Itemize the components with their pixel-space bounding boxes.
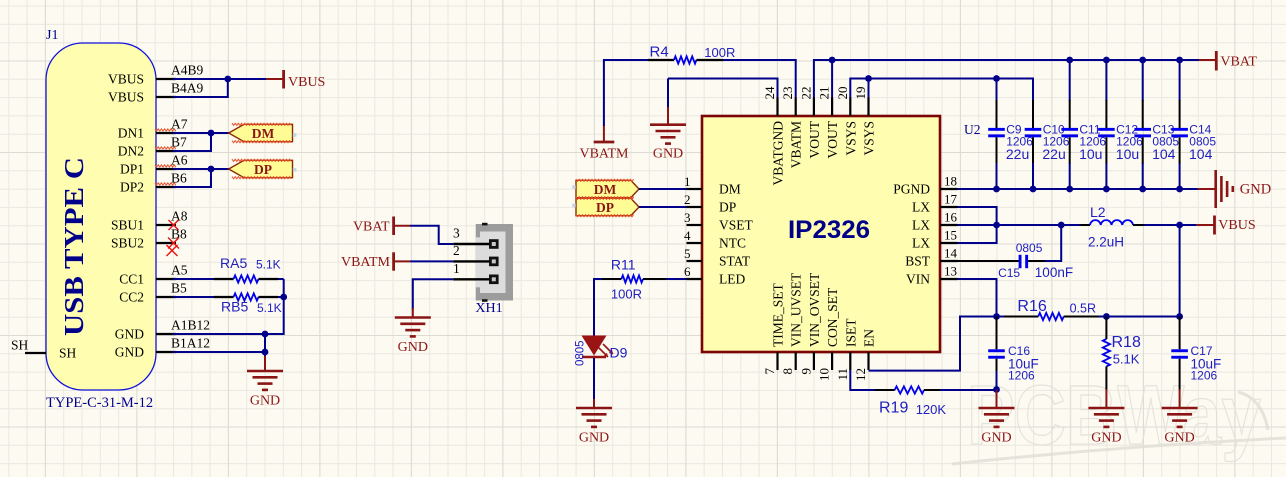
junction pin21 VOUT bbox=[829, 57, 836, 64]
svg-text:B5: B5 bbox=[171, 281, 187, 296]
resistor R19 120K bbox=[875, 386, 946, 417]
U2 pin 16 LX bbox=[912, 210, 958, 233]
resistor RB5 5.1K bbox=[214, 293, 282, 315]
svg-text:VIN_UVSET: VIN_UVSET bbox=[789, 272, 804, 347]
svg-text:3: 3 bbox=[453, 226, 460, 241]
wire GND B1A12 bbox=[173, 351, 265, 353]
svg-text:CON_SET: CON_SET bbox=[825, 287, 840, 347]
svg-text:16: 16 bbox=[944, 210, 958, 225]
U2 pin 24 VBATGND bbox=[762, 86, 786, 186]
wire EN to VIN bbox=[869, 317, 997, 371]
U2 pin 17 LX bbox=[912, 192, 958, 215]
J1 pin A5 CC1 bbox=[119, 263, 188, 287]
svg-text:R16: R16 bbox=[1017, 298, 1046, 315]
port handles (left DM/DP) bbox=[293, 133, 297, 171]
junction LX bbox=[993, 222, 1000, 229]
wire bbox=[996, 79, 998, 102]
svg-text:100nF: 100nF bbox=[1035, 265, 1073, 280]
junction C15/LX bbox=[1058, 222, 1065, 229]
svg-text:CC2: CC2 bbox=[119, 290, 144, 305]
svg-text:VSYS: VSYS bbox=[862, 121, 877, 156]
wire VSYS rail bbox=[850, 79, 1033, 101]
svg-text:0805: 0805 bbox=[1016, 241, 1043, 255]
wire R18 to C17 node bbox=[1106, 316, 1179, 318]
capacitor C9 22u bbox=[988, 79, 1033, 193]
junction DM bbox=[208, 130, 215, 137]
wire L2 to VBUS bbox=[1144, 224, 1196, 226]
wire DN2 to DM bbox=[173, 134, 211, 151]
svg-text:IP2326: IP2326 bbox=[788, 216, 870, 244]
wire C16 to GND node bbox=[996, 371, 998, 390]
J1 pin A1B12 GND bbox=[115, 318, 210, 342]
svg-text:7: 7 bbox=[762, 368, 777, 375]
svg-text:DM: DM bbox=[252, 126, 275, 141]
J1 pin A6 DP1 bbox=[120, 153, 188, 177]
ground symbol C16 bbox=[979, 408, 1015, 427]
power stub VBAT bbox=[394, 225, 410, 227]
svg-text:B1A12: B1A12 bbox=[171, 336, 210, 351]
wire XH1 pin1 to GND bbox=[413, 279, 454, 309]
U2 pin 21 VOUT bbox=[817, 87, 841, 159]
svg-text:B4A9: B4A9 bbox=[171, 81, 204, 96]
wire bbox=[996, 163, 998, 189]
ground symbol C17 bbox=[1162, 408, 1198, 427]
U2 pin 4 NTC bbox=[684, 228, 746, 250]
svg-text:GND: GND bbox=[1164, 431, 1194, 446]
svg-text:2: 2 bbox=[684, 192, 691, 207]
svg-text:DN2: DN2 bbox=[118, 144, 144, 159]
svg-text:19: 19 bbox=[853, 87, 868, 100]
svg-text:10u: 10u bbox=[1079, 146, 1102, 162]
wire pin19 drop bbox=[868, 79, 870, 98]
wire VIN pin13 down bbox=[958, 279, 997, 317]
ground symbol (rail, sideways) bbox=[1216, 170, 1233, 208]
svg-text:22u: 22u bbox=[1006, 146, 1029, 162]
svg-text:2: 2 bbox=[453, 243, 460, 258]
capacitor C12 10u bbox=[1098, 57, 1143, 193]
svg-text:C15: C15 bbox=[998, 266, 1020, 280]
J1 pin A8 SBU1 bbox=[111, 209, 188, 233]
wire DP net bbox=[173, 168, 229, 170]
svg-text:VSET: VSET bbox=[719, 218, 754, 233]
svg-text:20: 20 bbox=[835, 87, 850, 100]
U2 pin 8 VIN_UVSET bbox=[780, 272, 804, 374]
svg-text:10: 10 bbox=[817, 368, 832, 381]
wire CC1 to RA5 bbox=[173, 278, 216, 280]
svg-text:GND: GND bbox=[579, 431, 609, 446]
svg-text:J1: J1 bbox=[46, 28, 58, 43]
junction VIN node bbox=[993, 313, 1000, 320]
junction C13 top bbox=[1139, 57, 1146, 64]
svg-text:DP: DP bbox=[254, 162, 272, 177]
svg-text:A1B12: A1B12 bbox=[171, 318, 210, 333]
wire VIN node up to VBUS bbox=[1179, 226, 1181, 317]
port DM (J1 side) bbox=[229, 123, 293, 143]
junction C11 top bbox=[1066, 57, 1073, 64]
U2 pin 13 VIN bbox=[906, 264, 958, 287]
svg-text:D9: D9 bbox=[610, 345, 628, 361]
capacitor C14 104 bbox=[1171, 57, 1216, 193]
ground stub R18 bbox=[1105, 389, 1107, 408]
compile squiggles on DN/DP pins bbox=[155, 129, 176, 185]
svg-text:USB TYPE C: USB TYPE C bbox=[59, 157, 89, 336]
junction RB5 bbox=[280, 294, 287, 301]
U2 pin 9 VIN_OVSET bbox=[798, 272, 822, 374]
U2 pin 14 BST bbox=[905, 246, 957, 269]
resistor R4 100R bbox=[648, 44, 735, 64]
svg-text:22: 22 bbox=[798, 87, 813, 100]
U2 pin 15 LX bbox=[912, 228, 958, 251]
svg-text:STAT: STAT bbox=[719, 254, 751, 269]
svg-text:VBAT: VBAT bbox=[1220, 55, 1257, 70]
svg-text:VBATGND: VBATGND bbox=[771, 121, 786, 186]
wire pin21 drop bbox=[831, 60, 833, 98]
power stub VBATM bbox=[394, 260, 410, 262]
svg-text:LED: LED bbox=[719, 272, 745, 287]
svg-text:GND: GND bbox=[115, 327, 144, 342]
J1 pin A7 DN1 bbox=[118, 117, 188, 141]
svg-text:A5: A5 bbox=[171, 263, 188, 278]
ground symbol (near R4) bbox=[667, 79, 669, 125]
resistor R11 100R bbox=[601, 257, 666, 302]
XH1 pin 1 bbox=[453, 261, 499, 284]
svg-text:LX: LX bbox=[912, 218, 930, 233]
svg-text:21: 21 bbox=[817, 87, 832, 100]
svg-text:GND: GND bbox=[1091, 431, 1121, 446]
svg-text:PGND: PGND bbox=[893, 182, 930, 197]
svg-text:VBAT: VBAT bbox=[353, 220, 390, 235]
wire RB5 right bbox=[278, 296, 284, 298]
svg-text:BST: BST bbox=[905, 254, 931, 269]
svg-text:11: 11 bbox=[835, 368, 850, 381]
svg-text:DP: DP bbox=[596, 200, 614, 215]
U2 pin 23 VBATM bbox=[780, 87, 804, 169]
svg-text:VIN_OVSET: VIN_OVSET bbox=[807, 272, 822, 347]
ground stub J1 bbox=[264, 356, 266, 371]
svg-text:SH: SH bbox=[59, 346, 77, 361]
svg-text:100R: 100R bbox=[611, 287, 642, 302]
wire C15 to LX bbox=[1045, 225, 1061, 261]
svg-text:23: 23 bbox=[780, 87, 795, 100]
junction C14 top bbox=[1176, 57, 1183, 64]
svg-text:104: 104 bbox=[1189, 146, 1213, 162]
svg-text:RA5: RA5 bbox=[220, 255, 247, 271]
svg-text:VIN: VIN bbox=[906, 272, 930, 287]
wire VOUT rail bbox=[814, 60, 1199, 98]
svg-text:B8: B8 bbox=[171, 227, 187, 242]
svg-text:U2: U2 bbox=[964, 122, 981, 137]
svg-text:2.2uH: 2.2uH bbox=[1088, 234, 1124, 249]
wire bbox=[1069, 163, 1071, 189]
wire VIN to R16 bbox=[997, 316, 1005, 318]
ground symbol J1 bbox=[247, 371, 283, 390]
svg-text:GND: GND bbox=[981, 431, 1011, 446]
ground bars (near R4) bbox=[650, 125, 686, 144]
junction VBUS bbox=[224, 76, 231, 83]
U2 pin 10 CON_SET bbox=[817, 287, 841, 381]
wire bbox=[1032, 163, 1034, 189]
no-ERC marker A8 bbox=[169, 220, 179, 230]
wire DP2 to DP bbox=[173, 170, 211, 187]
power port VBATM (R4) bbox=[579, 125, 629, 161]
svg-text:4: 4 bbox=[684, 228, 691, 243]
capacitor C16 10uF bbox=[988, 317, 1039, 383]
XH1 pin 3 bbox=[453, 226, 499, 249]
svg-text:1206: 1206 bbox=[1008, 368, 1035, 382]
U2 pin 6 LED bbox=[684, 264, 745, 286]
power stub VBUS bbox=[1196, 224, 1213, 226]
wire DM to pin1 bbox=[639, 188, 687, 190]
svg-text:22u: 22u bbox=[1042, 146, 1065, 162]
U2 pin 1 DM bbox=[684, 174, 741, 196]
svg-text:10u: 10u bbox=[1116, 146, 1139, 162]
U2 pin 20 VSYS bbox=[835, 87, 859, 156]
IC U2 IP2326 body bbox=[702, 116, 940, 352]
XH1 pin 2 bbox=[453, 243, 499, 266]
svg-text:DM: DM bbox=[594, 182, 617, 197]
svg-text:A4B9: A4B9 bbox=[171, 63, 204, 78]
svg-text:XH1: XH1 bbox=[475, 301, 502, 316]
ground symbol D9 bbox=[576, 408, 612, 427]
svg-text:VBUS: VBUS bbox=[288, 75, 325, 90]
svg-text:GND: GND bbox=[398, 340, 428, 355]
svg-text:ISET: ISET bbox=[843, 318, 858, 347]
J1 pin B4A9 VBUS bbox=[108, 81, 204, 105]
svg-text:15: 15 bbox=[944, 228, 957, 243]
capacitor C10 22u bbox=[1025, 100, 1070, 192]
wire bbox=[1142, 60, 1144, 101]
U2 pin 18 PGND bbox=[893, 174, 957, 197]
svg-text:RB5: RB5 bbox=[221, 299, 248, 315]
PCBWay watermark bbox=[952, 368, 1286, 464]
wire ISET down bbox=[850, 370, 876, 390]
junction C9 bottom bbox=[993, 186, 1000, 193]
wire VBATM to R4 bbox=[604, 60, 648, 126]
svg-text:12: 12 bbox=[853, 368, 868, 381]
wire DP to pin2 bbox=[639, 206, 687, 208]
junction GND2 bbox=[262, 349, 269, 356]
resistor R18 5.1K bbox=[1103, 317, 1141, 391]
wire bbox=[1105, 60, 1107, 101]
junction VBUS/VIN bbox=[1176, 222, 1183, 229]
svg-text:R4: R4 bbox=[650, 44, 669, 61]
inductor L2 2.2uH bbox=[1080, 204, 1145, 249]
svg-text:LX: LX bbox=[912, 200, 930, 215]
LED D9 bbox=[575, 336, 628, 367]
junction C11 bottom bbox=[1066, 186, 1073, 193]
svg-text:A8: A8 bbox=[171, 209, 188, 224]
svg-text:5.1K: 5.1K bbox=[257, 301, 282, 315]
svg-text:TYPE-C-31-M-12: TYPE-C-31-M-12 bbox=[46, 395, 153, 411]
wire DM net bbox=[173, 132, 229, 134]
svg-text:SBU1: SBU1 bbox=[111, 218, 144, 233]
U2 pin 3 VSET bbox=[684, 210, 754, 232]
wire PGND rail bbox=[958, 188, 1198, 190]
svg-text:120K: 120K bbox=[916, 402, 947, 417]
capacitor C15 100nF bbox=[958, 241, 1074, 280]
svg-text:18: 18 bbox=[944, 174, 957, 189]
svg-text:1206: 1206 bbox=[1191, 368, 1218, 382]
wire pin6 LED bbox=[665, 278, 687, 280]
wire VBAT to XH1 pin3 bbox=[410, 226, 453, 244]
svg-text:VOUT: VOUT bbox=[825, 120, 840, 158]
svg-text:GND: GND bbox=[115, 345, 144, 360]
power port VBATM (XH1) bbox=[341, 252, 394, 270]
wire VBUS A4B9 bbox=[173, 78, 266, 80]
ground stub C17 bbox=[1179, 389, 1181, 408]
svg-text:TIME_SET: TIME_SET bbox=[771, 283, 786, 347]
U2 pin 19 VSYS bbox=[853, 87, 877, 156]
svg-text:DP2: DP2 bbox=[120, 180, 144, 195]
svg-text:3: 3 bbox=[684, 210, 691, 225]
svg-text:VBATM: VBATM bbox=[341, 255, 391, 270]
wire R4 to pin23 bbox=[723, 60, 796, 98]
svg-text:L2: L2 bbox=[1090, 204, 1106, 220]
svg-text:VBUS: VBUS bbox=[1218, 218, 1255, 233]
svg-text:24: 24 bbox=[762, 86, 777, 100]
svg-text:0.5R: 0.5R bbox=[1070, 302, 1096, 316]
svg-text:R19: R19 bbox=[879, 400, 908, 417]
svg-text:VBATM: VBATM bbox=[789, 121, 804, 168]
svg-text:9: 9 bbox=[798, 368, 813, 375]
ground symbol R18 bbox=[1088, 408, 1124, 427]
no-ERC marker B8 bbox=[167, 238, 180, 257]
wire VBATM to XH1 pin2 bbox=[410, 260, 453, 262]
wire bbox=[1179, 163, 1181, 189]
wire bbox=[1142, 163, 1144, 189]
svg-text:GND: GND bbox=[1240, 182, 1271, 198]
svg-text:5.1K: 5.1K bbox=[1113, 352, 1140, 367]
junction C17 top bbox=[1176, 313, 1183, 320]
svg-text:VBATM: VBATM bbox=[579, 146, 629, 161]
U2 pin 12 EN bbox=[853, 329, 877, 381]
J1 pin B8 SBU2 bbox=[111, 227, 187, 251]
svg-text:GND: GND bbox=[250, 394, 280, 409]
svg-text:DM: DM bbox=[719, 182, 741, 197]
J1 pin B1A12 GND bbox=[115, 336, 210, 360]
ground symbol XH1 bbox=[395, 318, 431, 337]
capacitor C11 10u bbox=[1061, 57, 1106, 193]
svg-text:104: 104 bbox=[1152, 146, 1176, 162]
ground stub XH1 bbox=[412, 308, 414, 318]
port DM (U2 side) bbox=[576, 179, 639, 199]
J1 pin B7 DN2 bbox=[118, 135, 187, 159]
power stub VBUS bbox=[266, 78, 285, 80]
svg-text:GND: GND bbox=[653, 146, 683, 161]
svg-text:DN1: DN1 bbox=[118, 126, 144, 141]
power port VBUS (rail) bbox=[1215, 216, 1256, 235]
junction pin19 VSYS bbox=[865, 75, 872, 82]
port DP (J1 side) bbox=[229, 159, 293, 179]
svg-text:VSYS: VSYS bbox=[843, 121, 858, 156]
junction C16/R19 GND bbox=[993, 386, 1000, 393]
J1 pin B5 CC2 bbox=[119, 281, 187, 305]
wire LX pin 16 bbox=[958, 224, 997, 226]
svg-text:VOUT: VOUT bbox=[807, 120, 822, 158]
svg-text:VBUS: VBUS bbox=[108, 90, 144, 105]
U2 pin 2 DP bbox=[684, 192, 736, 214]
connector XH1 body bbox=[476, 223, 513, 302]
junction C10 bottom bbox=[1030, 186, 1037, 193]
wire D9 to GND bbox=[593, 358, 595, 400]
svg-text:5: 5 bbox=[684, 246, 691, 261]
svg-text:0805: 0805 bbox=[575, 340, 587, 366]
svg-text:DP: DP bbox=[719, 200, 736, 215]
power stub VBAT rail bbox=[1199, 59, 1216, 61]
wire R19 to GND node bbox=[940, 389, 997, 391]
ground stub C16 bbox=[996, 390, 998, 409]
svg-text:1: 1 bbox=[453, 261, 460, 276]
svg-text:5.1K: 5.1K bbox=[256, 258, 281, 272]
svg-text:R18: R18 bbox=[1112, 334, 1141, 351]
junction C13 bottom bbox=[1139, 186, 1146, 193]
junction C12 bottom bbox=[1103, 186, 1110, 193]
U2 pin 7 TIME_SET bbox=[762, 283, 786, 375]
svg-text:LX: LX bbox=[912, 236, 930, 251]
J1 pin SH bbox=[25, 346, 77, 361]
wire to GND symbol bbox=[264, 334, 266, 357]
U2 pin 11 ISET bbox=[835, 318, 859, 381]
connector J1 body bbox=[46, 43, 156, 390]
svg-text:SBU2: SBU2 bbox=[111, 236, 144, 251]
junction GND1 bbox=[262, 331, 269, 338]
wire GND to pin24 VBATGND bbox=[668, 79, 778, 98]
wire bbox=[1069, 60, 1071, 101]
wire R11 to D9 bbox=[594, 279, 602, 336]
svg-text:CC1: CC1 bbox=[119, 272, 144, 287]
svg-text:100R: 100R bbox=[704, 45, 735, 60]
wire R16 to R18 bbox=[1099, 316, 1106, 318]
wire bbox=[1179, 60, 1181, 101]
ground stub D9 bbox=[593, 399, 595, 408]
junction R18 top bbox=[1103, 313, 1110, 320]
svg-text:DP1: DP1 bbox=[120, 162, 144, 177]
U2 pin 5 STAT bbox=[684, 246, 751, 268]
junction C14 bottom bbox=[1176, 186, 1183, 193]
capacitor C17 10uF bbox=[1171, 317, 1221, 391]
svg-text:EN: EN bbox=[862, 329, 877, 347]
capacitor C13 104 bbox=[1134, 57, 1179, 193]
port DP (U2 side) bbox=[576, 197, 639, 217]
svg-text:8: 8 bbox=[780, 368, 795, 375]
J1 pin A4B9 VBUS bbox=[108, 63, 204, 87]
svg-text:14: 14 bbox=[944, 246, 958, 261]
svg-text:6: 6 bbox=[684, 264, 691, 279]
svg-text:R11: R11 bbox=[611, 257, 636, 273]
svg-text:NTC: NTC bbox=[719, 236, 746, 251]
wire RA5 right bbox=[278, 278, 284, 280]
svg-text:SH: SH bbox=[11, 338, 29, 353]
svg-text:13: 13 bbox=[944, 264, 957, 279]
junction C9 top bbox=[993, 75, 1000, 82]
power port VBAT (XH1) bbox=[353, 217, 394, 236]
wire GND A1B12 bbox=[173, 333, 265, 335]
svg-text:1: 1 bbox=[684, 174, 691, 189]
power stub GND rail bbox=[1198, 188, 1216, 190]
wire VBUS B4A9 bbox=[173, 80, 228, 97]
wire bbox=[1105, 163, 1107, 189]
wire LX to L2 bbox=[997, 224, 1081, 226]
resistor RA5 5.1K bbox=[214, 255, 281, 283]
power port VBAT (rail) bbox=[1216, 51, 1257, 71]
wire LX pins 17/15 bbox=[958, 207, 997, 243]
junction C12 top bbox=[1103, 57, 1110, 64]
svg-text:VBUS: VBUS bbox=[108, 72, 144, 87]
svg-text:17: 17 bbox=[944, 192, 958, 207]
port handles (right DM/DP) bbox=[572, 185, 576, 207]
U2 pin 22 VOUT bbox=[798, 87, 822, 159]
J1 pin B6 DP2 bbox=[120, 171, 187, 195]
